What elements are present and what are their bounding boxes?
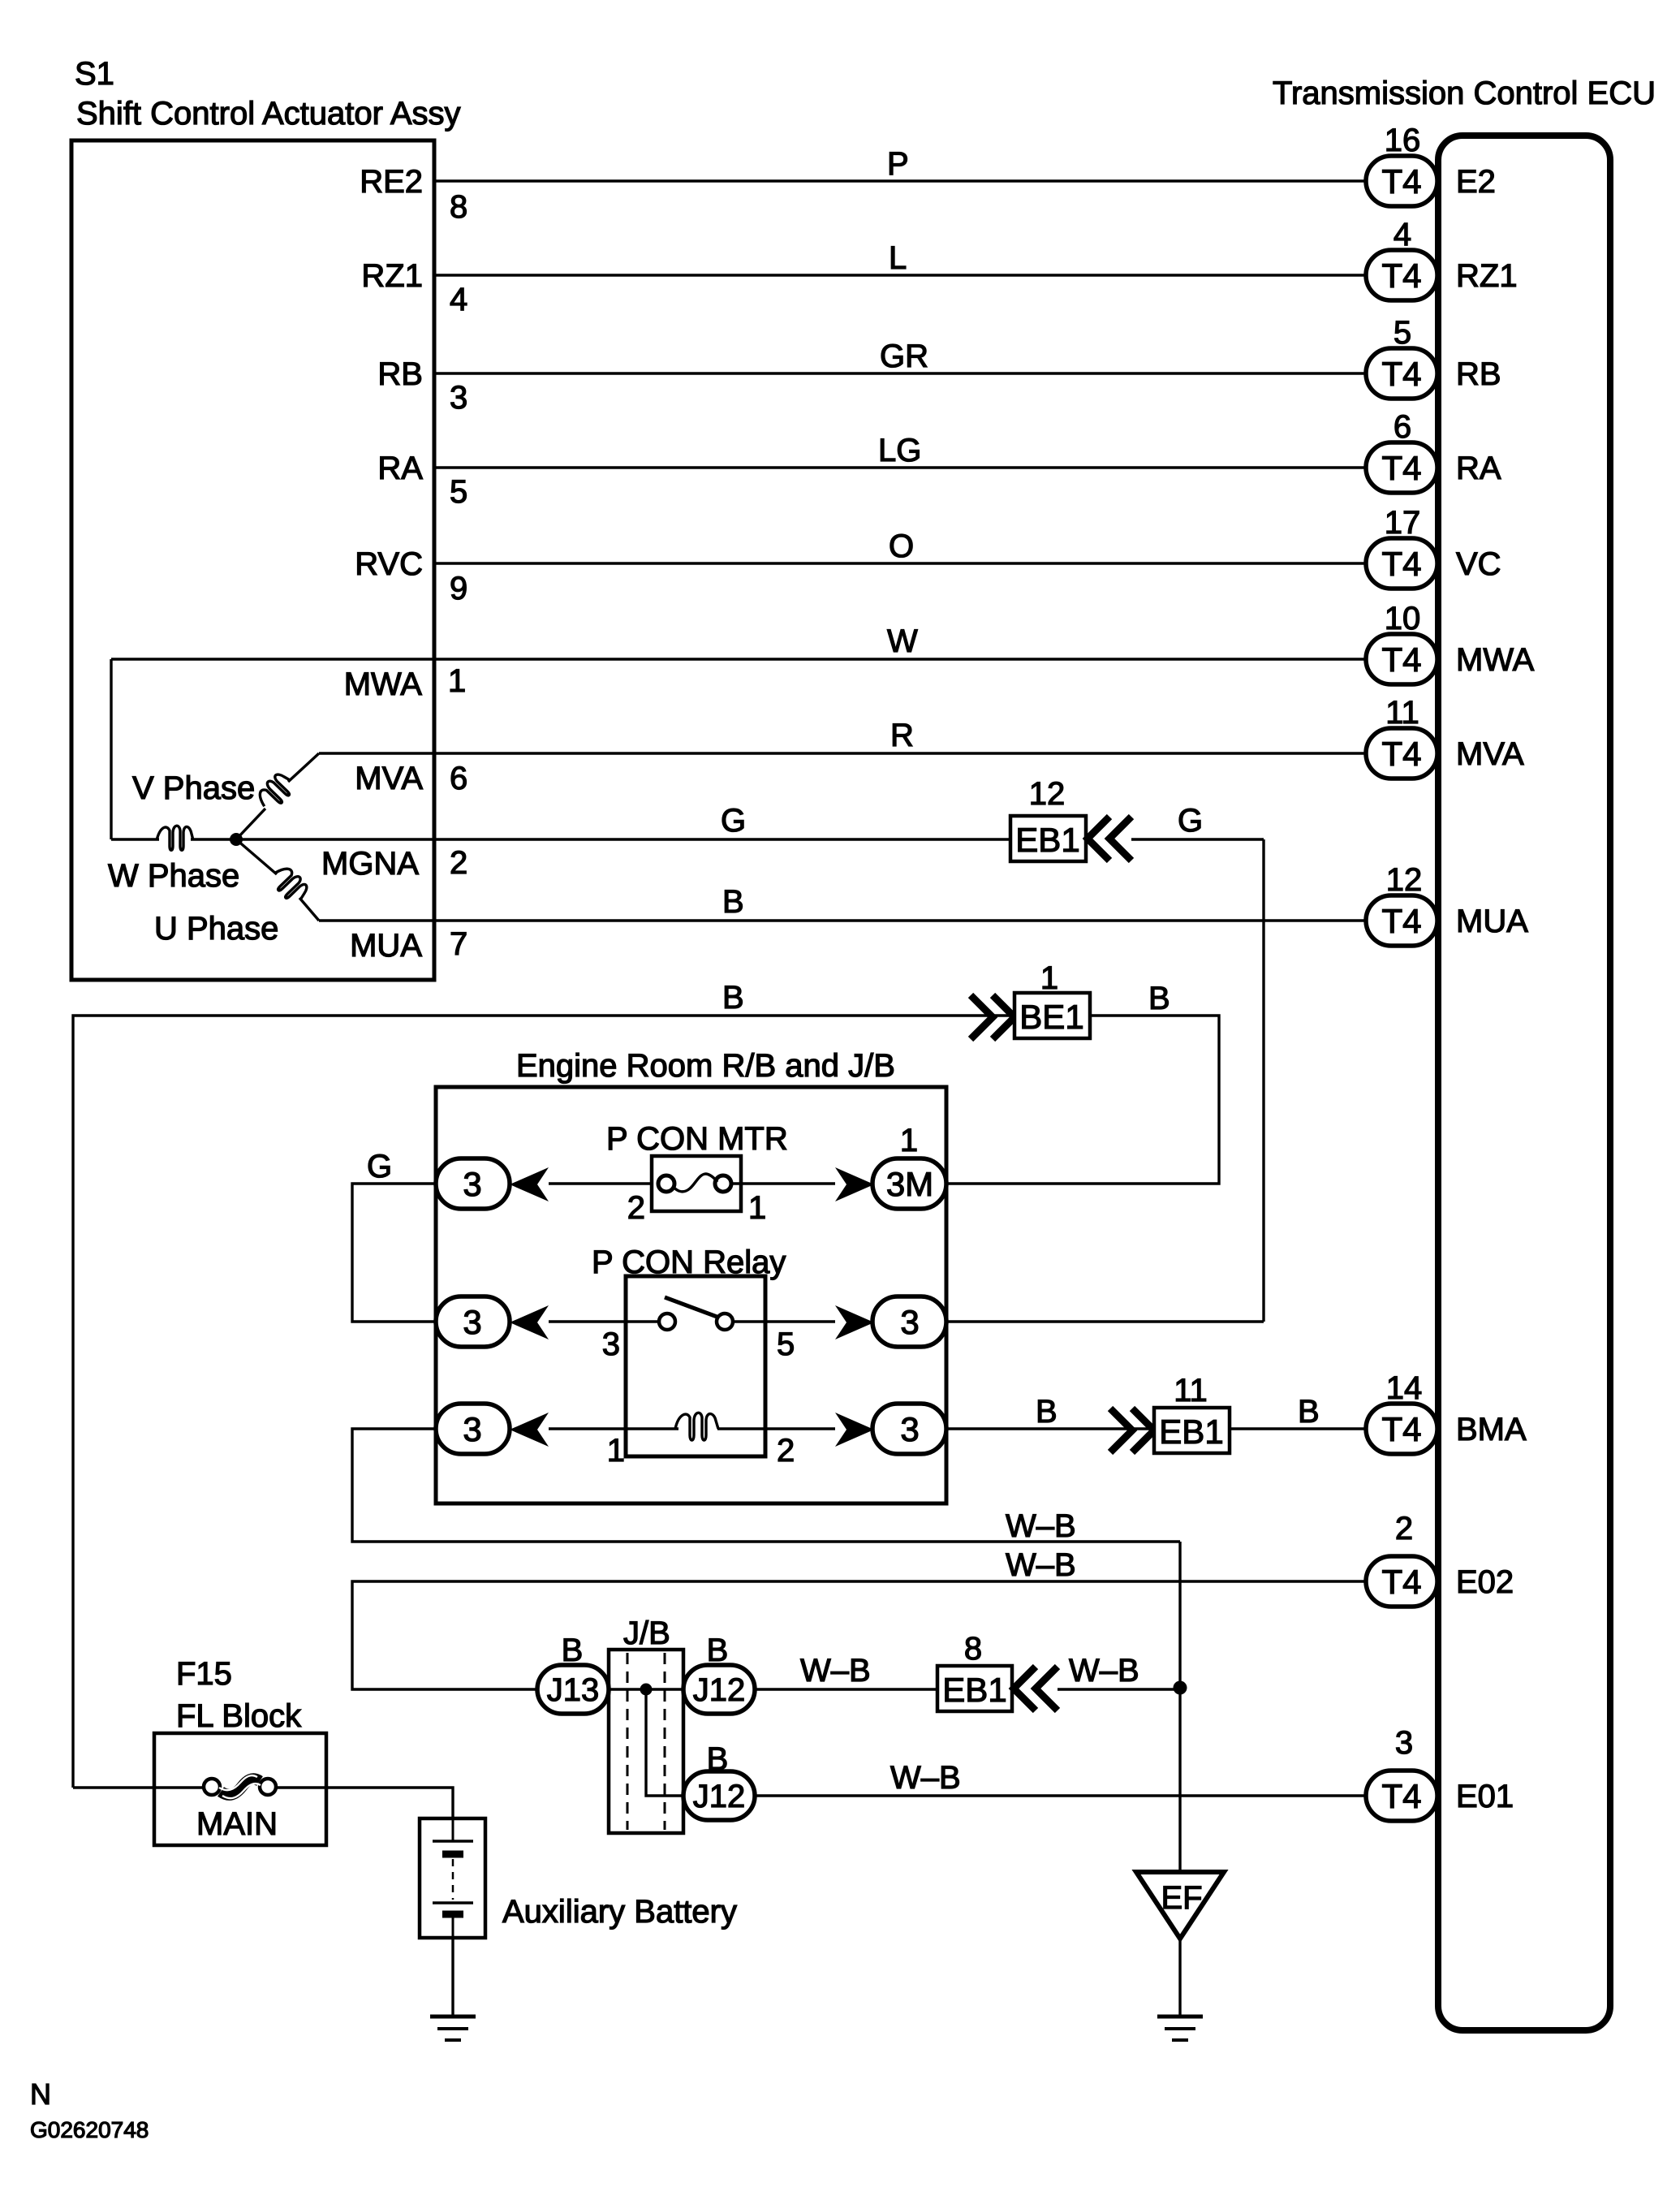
svg-text:T4: T4 <box>1381 1563 1421 1601</box>
svg-text:J/B: J/B <box>623 1615 670 1651</box>
wire B from EB1 11 to T4 BMA <box>1230 1427 1366 1430</box>
arrow female (fuse row left) <box>510 1167 549 1201</box>
relay contact left <box>659 1313 675 1330</box>
wire B (battery feed to BE1) <box>73 1016 1014 1788</box>
svg-text:N: N <box>30 2077 51 2111</box>
svg-text:RB: RB <box>1456 356 1501 392</box>
svg-text:12: 12 <box>1029 776 1066 812</box>
wire J/B internal link <box>646 1689 683 1796</box>
ground EF triangle <box>1136 1872 1224 1939</box>
component S1 Shift Control Actuator Assy box <box>71 140 434 980</box>
ground symbol (EF) <box>1157 2017 1203 2040</box>
svg-text:G: G <box>1178 803 1203 839</box>
svg-text:MUA: MUA <box>350 928 422 964</box>
wire relay contact to G drop <box>946 1320 1264 1322</box>
arrow female chevrons at EB1 8 <box>1014 1667 1036 1710</box>
svg-text:RA: RA <box>1456 451 1501 486</box>
svg-text:G: G <box>721 803 746 839</box>
svg-text:P CON MTR: P CON MTR <box>606 1121 788 1157</box>
svg-text:E02: E02 <box>1456 1564 1514 1600</box>
svg-text:W–B: W–B <box>1069 1653 1139 1689</box>
svg-text:3: 3 <box>900 1303 919 1341</box>
component U1 Transmission Control ECU box <box>1438 136 1610 2030</box>
svg-text:BE1: BE1 <box>1019 998 1083 1036</box>
wire MAIN to battery <box>276 1788 453 1818</box>
svg-text:O: O <box>889 528 914 564</box>
svg-text:14: 14 <box>1386 1370 1423 1406</box>
svg-text:T4: T4 <box>1381 735 1421 773</box>
connector T4 (MVA) <box>1366 728 1437 779</box>
svg-text:2: 2 <box>450 845 467 881</box>
wire W (S1 MWA pin 1 to ECU MWA) <box>111 658 1366 660</box>
wire relay coil row right segment <box>717 1427 835 1430</box>
wire B (coil row to EB1 11) <box>946 1427 1156 1430</box>
svg-text:6: 6 <box>1394 409 1411 445</box>
svg-text:5: 5 <box>450 474 467 510</box>
svg-text:LG: LG <box>878 433 921 468</box>
svg-text:T4: T4 <box>1381 641 1421 679</box>
svg-text:Transmission Control ECU: Transmission Control ECU <box>1273 75 1656 111</box>
svg-text:10: 10 <box>1385 601 1421 636</box>
wire GR (S1 RB pin 3 to ECU RB) <box>434 372 1366 374</box>
svg-text:W: W <box>887 623 918 659</box>
svg-text:3: 3 <box>463 1410 481 1448</box>
svg-text:Engine Room R/B and J/B: Engine Room R/B and J/B <box>516 1048 895 1084</box>
svg-text:RE2: RE2 <box>360 164 423 200</box>
svg-text:G: G <box>367 1149 392 1184</box>
busbar dashed line right <box>664 1653 666 1830</box>
svg-text:MWA: MWA <box>1456 642 1535 678</box>
wire G from EB1 to relay drop <box>1131 838 1264 840</box>
connector T4 (E02) <box>1366 1556 1437 1607</box>
arrow male chevrons at EB1 11 <box>1110 1408 1132 1452</box>
svg-text:RZ1: RZ1 <box>361 258 423 294</box>
wire V phase diagonal (star point to MVA wire) <box>236 809 265 839</box>
coil U phase winding <box>268 863 311 906</box>
svg-text:1: 1 <box>607 1433 625 1469</box>
svg-text:2: 2 <box>627 1190 645 1226</box>
wire J/B internal bus (J13 to J12) <box>609 1688 683 1690</box>
connector EB1 (junction 12) <box>1010 816 1086 861</box>
arrow male (relay coil row right) <box>835 1413 874 1447</box>
connector 3 (relay coil row, right) <box>872 1404 946 1454</box>
svg-text:3: 3 <box>463 1303 481 1341</box>
svg-text:EB1: EB1 <box>942 1671 1006 1709</box>
arrow female chevrons at EB1 12 <box>1088 817 1109 861</box>
svg-text:GR: GR <box>880 339 928 374</box>
wire EF to ground <box>1178 1939 1181 2017</box>
svg-text:3: 3 <box>1395 1725 1413 1761</box>
svg-text:P: P <box>887 146 909 182</box>
svg-text:8: 8 <box>450 189 467 225</box>
svg-text:W–B: W–B <box>1006 1508 1076 1544</box>
svg-text:1: 1 <box>1040 960 1058 996</box>
svg-text:EB1: EB1 <box>1159 1413 1223 1451</box>
arrow female (relay coil row left) <box>510 1413 549 1447</box>
svg-text:1: 1 <box>900 1123 918 1158</box>
wire U phase diagonal (star point to MUA wire) <box>236 839 277 874</box>
svg-text:RZ1: RZ1 <box>1456 258 1518 294</box>
relay contact right <box>717 1313 733 1330</box>
arrow male chevrons at BE1 <box>971 995 993 1039</box>
svg-text:E01: E01 <box>1456 1779 1514 1814</box>
svg-text:V Phase: V Phase <box>132 770 255 806</box>
svg-text:J12: J12 <box>693 1672 746 1708</box>
wire W-B (E02 to J13 riser) <box>352 1581 1366 1689</box>
wire G (fuse row to relay row, left side) <box>352 1184 436 1322</box>
wire P (S1 RE2 pin 8 to ECU E2) <box>434 179 1366 182</box>
svg-text:1: 1 <box>748 1190 766 1226</box>
ground symbol (battery) <box>430 2017 476 2040</box>
connector 3 (relay contact row, right) <box>872 1296 946 1347</box>
connector T4 (RZ1) <box>1366 250 1437 300</box>
wire fuse row right segment <box>730 1182 835 1184</box>
svg-text:RA: RA <box>377 451 423 486</box>
svg-text:W Phase: W Phase <box>108 858 239 894</box>
arrow male (relay contact row right) <box>835 1305 874 1339</box>
node W-B junction <box>1174 1681 1187 1695</box>
svg-text:17: 17 <box>1385 505 1421 541</box>
wire O (S1 RVC pin 9 to ECU VC) <box>434 562 1366 564</box>
wire B (S1 MUA pin 7 to ECU MUA) <box>319 919 1366 921</box>
svg-text:U Phase: U Phase <box>154 911 278 947</box>
connector EB1 (junction 11) <box>1154 1408 1230 1453</box>
wire W-B (relay coil row to ground bus) <box>352 1429 1180 1542</box>
svg-text:R: R <box>890 718 914 753</box>
wire G vertical drop to P CON Relay contact <box>1262 839 1264 1322</box>
wire R (S1 MVA pin 6 to ECU MVA) <box>319 752 1366 754</box>
svg-text:EF: EF <box>1161 1880 1202 1916</box>
wire MGNA / G (star point to EB1) <box>111 838 159 840</box>
svg-text:2: 2 <box>1395 1511 1413 1546</box>
svg-text:3M: 3M <box>886 1165 933 1203</box>
component J/B box <box>609 1650 683 1833</box>
svg-text:5: 5 <box>777 1326 795 1362</box>
relay switch blade <box>665 1297 719 1318</box>
coil relay winding <box>675 1413 718 1440</box>
wire relay contact row left segment <box>549 1320 660 1322</box>
connector T4 (MWA) <box>1366 634 1437 684</box>
svg-text:12: 12 <box>1386 862 1423 898</box>
svg-text:MGNA: MGNA <box>321 846 419 882</box>
svg-text:1: 1 <box>448 663 466 699</box>
svg-text:11: 11 <box>1385 695 1419 731</box>
svg-text:FL Block: FL Block <box>176 1698 302 1734</box>
component P CON Relay box <box>626 1276 765 1456</box>
svg-text:5: 5 <box>1394 315 1411 351</box>
svg-text:9: 9 <box>450 571 467 606</box>
connector J12 (lower) <box>683 1771 755 1820</box>
svg-text:4: 4 <box>450 282 467 317</box>
connector J12 (upper) <box>683 1665 755 1714</box>
svg-text:T4: T4 <box>1381 355 1421 393</box>
svg-text:T4: T4 <box>1381 902 1421 940</box>
component FL Block box <box>154 1733 326 1845</box>
svg-text:EB1: EB1 <box>1015 821 1079 859</box>
wire W-phase riser (MWA wire down to star point) <box>110 659 112 839</box>
svg-text:T4: T4 <box>1381 257 1421 295</box>
connector T4 (BMA) <box>1366 1404 1437 1454</box>
connector T4 (MUA) <box>1366 895 1437 946</box>
svg-text:B: B <box>1036 1394 1058 1430</box>
svg-text:3: 3 <box>463 1165 481 1203</box>
node star point of motor windings <box>230 833 243 846</box>
svg-text:B: B <box>722 980 744 1016</box>
svg-text:11: 11 <box>1174 1373 1208 1408</box>
wire W-B (J12 lower to ECU E01) <box>755 1794 1366 1797</box>
connector EB1 (junction 8) <box>937 1666 1012 1711</box>
svg-text:T4: T4 <box>1381 545 1421 583</box>
arrow male (fuse row right) <box>835 1167 874 1201</box>
connector 3 (relay contact row, left) <box>436 1296 510 1347</box>
svg-text:MUA: MUA <box>1456 904 1528 939</box>
svg-text:W–B: W–B <box>800 1653 871 1689</box>
svg-text:8: 8 <box>964 1631 982 1667</box>
svg-text:3: 3 <box>450 380 467 416</box>
connector J13 <box>537 1665 609 1714</box>
svg-text:T4: T4 <box>1381 1410 1421 1448</box>
wire battery feed into FL block <box>73 1786 204 1788</box>
wire fuse row left segment <box>549 1182 659 1184</box>
svg-text:T4: T4 <box>1381 162 1421 201</box>
svg-text:3: 3 <box>602 1326 620 1362</box>
wire B from BE1 down to P CON MTR 3M <box>946 1016 1219 1184</box>
svg-text:Auxiliary Battery: Auxiliary Battery <box>502 1894 737 1930</box>
svg-text:B: B <box>722 884 744 920</box>
wire battery to ground <box>451 1938 454 2017</box>
node J/B internal junction <box>640 1684 653 1696</box>
svg-text:4: 4 <box>1394 217 1411 252</box>
connector 3 (relay coil row, left) <box>436 1404 510 1454</box>
wire LG (S1 RA pin 5 to ECU RA) <box>434 466 1366 468</box>
svg-text:L: L <box>889 240 907 276</box>
wire relay contact row right segment <box>733 1320 835 1322</box>
component Engine Room R/B and J/B box <box>436 1087 946 1503</box>
svg-text:MVA: MVA <box>1456 736 1524 772</box>
connector 3M (fuse row, right) <box>872 1158 946 1209</box>
busbar dashed line left <box>627 1653 629 1830</box>
wire W-B (EB1 8 to junction) <box>1058 1688 1180 1690</box>
svg-text:B: B <box>1148 981 1170 1016</box>
battery Auxiliary Battery <box>420 1818 485 1938</box>
svg-text:RVC: RVC <box>355 546 423 582</box>
svg-text:MVA: MVA <box>355 761 423 796</box>
svg-text:7: 7 <box>450 926 467 962</box>
svg-text:VC: VC <box>1456 546 1501 582</box>
svg-text:F15: F15 <box>176 1656 232 1692</box>
svg-text:BMA: BMA <box>1456 1412 1527 1447</box>
connector T4 (E2) <box>1366 156 1437 206</box>
svg-text:S1: S1 <box>75 56 114 92</box>
svg-text:W–B: W–B <box>1006 1547 1076 1583</box>
wire W-B (J12 to EB1 8) <box>755 1688 937 1690</box>
svg-text:T4: T4 <box>1381 449 1421 487</box>
svg-text:G02620748: G02620748 <box>30 2117 149 2142</box>
connector T4 (RA) <box>1366 442 1437 493</box>
connector 3 (fuse row, left) <box>436 1158 510 1209</box>
connector T4 (RB) <box>1366 348 1437 399</box>
svg-text:3: 3 <box>900 1410 919 1448</box>
wire relay coil row left segment <box>549 1427 678 1430</box>
svg-text:MAIN: MAIN <box>196 1806 278 1842</box>
fusible link MAIN <box>204 1775 276 1798</box>
fuse P CON MTR <box>652 1156 741 1211</box>
svg-text:MWA: MWA <box>344 666 423 702</box>
wire L (S1 RZ1 pin 4 to ECU RZ1) <box>434 274 1366 276</box>
wire W-B vertical to EF ground <box>1178 1542 1181 1872</box>
svg-text:16: 16 <box>1385 123 1421 158</box>
svg-text:E2: E2 <box>1456 164 1496 200</box>
connector T4 (E01) <box>1366 1771 1437 1821</box>
coil W phase winding <box>157 826 193 850</box>
connector BE1 (junction 1) <box>1014 993 1090 1038</box>
arrow female (relay contact row left) <box>510 1305 549 1339</box>
svg-text:2: 2 <box>777 1433 795 1469</box>
svg-text:RB: RB <box>377 356 423 392</box>
svg-text:T4: T4 <box>1381 1777 1421 1815</box>
coil V phase winding <box>254 770 297 813</box>
svg-text:Shift Control Actuator Assy: Shift Control Actuator Assy <box>76 96 461 132</box>
connector T4 (VC) <box>1366 538 1437 589</box>
svg-text:W–B: W–B <box>890 1760 961 1796</box>
svg-text:B: B <box>1298 1394 1320 1430</box>
svg-text:6: 6 <box>450 761 467 796</box>
svg-text:J12: J12 <box>693 1779 746 1814</box>
svg-text:J13: J13 <box>547 1672 600 1708</box>
